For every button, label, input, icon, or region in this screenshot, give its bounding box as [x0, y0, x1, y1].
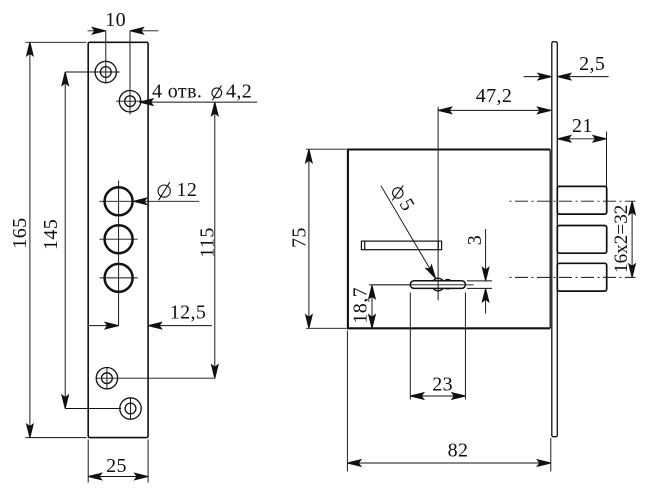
- dim 75: [306, 148, 347, 150]
- svg-text:25: 25: [106, 455, 127, 477]
- screw hole bottom-1: [96, 368, 117, 389]
- bolt 3: [557, 263, 606, 291]
- screw hole bottom-1 centerlines: [96, 377, 215, 379]
- leader d5: [381, 186, 436, 279]
- dim 10: [88, 30, 106, 32]
- svg-text:3: 3: [464, 235, 486, 245]
- svg-text:18,7: 18,7: [349, 287, 371, 324]
- dim 25: [87, 440, 89, 483]
- big hole 3 (d12): [105, 264, 133, 292]
- keyhole centerline horizontal: [371, 284, 473, 286]
- svg-text:75: 75: [289, 227, 311, 248]
- bolt 3 dash-dot centerline: [510, 276, 636, 278]
- leader 4 otv d4,2: [140, 101, 258, 103]
- slot bar: [361, 241, 441, 250]
- dim 16x2=32: [631, 201, 633, 277]
- label d5 rotated: [392, 185, 403, 200]
- dim 3: [467, 280, 492, 282]
- dim 165: [26, 41, 87, 43]
- bolt 1 dash-dot centerline: [510, 200, 636, 202]
- bolt 2: [557, 226, 606, 254]
- screw hole bottom-2 centerlines: [65, 408, 121, 410]
- big hole 2 (d12): [105, 225, 133, 253]
- dim 21: [606, 132, 608, 188]
- faceplate outline: [88, 42, 148, 437]
- keyhole small circle: [443, 280, 452, 289]
- leader d12: [133, 200, 199, 202]
- screw hole top-1 centerlines: [65, 71, 120, 73]
- screw hole top-2 centerlines: [116, 100, 144, 102]
- big hole 1 (d12): [105, 187, 133, 215]
- svg-text:115: 115: [197, 227, 219, 257]
- svg-text:12,5: 12,5: [170, 301, 207, 323]
- dim 2,5: [524, 76, 552, 78]
- dim 82: [346, 331, 348, 472]
- svg-text:21: 21: [572, 115, 593, 137]
- svg-text:82: 82: [448, 440, 469, 462]
- dim 47,2: [438, 109, 551, 111]
- dim 145: [64, 72, 66, 409]
- svg-text:10: 10: [105, 9, 126, 31]
- label d12: [158, 182, 170, 200]
- svg-text:165: 165: [9, 217, 31, 248]
- dim 23: [409, 293, 411, 400]
- svg-text:23: 23: [432, 374, 453, 396]
- dim 18,7: [369, 284, 410, 286]
- svg-text:12: 12: [177, 179, 198, 201]
- keyhole circle d5: [432, 278, 445, 291]
- screw hole top-2: [119, 91, 140, 112]
- screw hole bottom-2: [120, 398, 141, 419]
- big holes common vertical centerline: [118, 181, 120, 326]
- svg-text:4,2: 4,2: [226, 81, 252, 103]
- body outline: [348, 150, 550, 329]
- screw hole top-1: [95, 61, 116, 82]
- dim 12,5: [88, 325, 119, 327]
- svg-text:145: 145: [40, 219, 62, 250]
- keyhole bar: [410, 281, 465, 289]
- svg-text:47,2: 47,2: [476, 85, 513, 107]
- bolt 1: [557, 186, 606, 214]
- svg-text:2,5: 2,5: [579, 53, 605, 75]
- keyhole centerline vertical: [437, 107, 439, 300]
- svg-text:4 отв.: 4 отв.: [152, 81, 202, 103]
- faceplate edge view: [552, 42, 558, 437]
- svg-text:16x2=32: 16x2=32: [611, 205, 632, 273]
- dim 115: [214, 102, 216, 378]
